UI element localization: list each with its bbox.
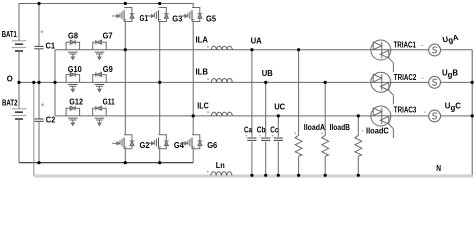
capacitor Cc — [270, 116, 283, 176]
junction G2 source on negative rail — [124, 161, 127, 164]
transistor G1 — [112, 8, 148, 51]
svg-text:G2: G2 — [140, 141, 151, 150]
junction G4 source on negative rail — [158, 161, 161, 164]
junction Ca on phase A — [250, 48, 253, 51]
transistor G4 — [147, 135, 185, 163]
svg-text:G11: G11 — [103, 97, 116, 106]
junction G1 drain on top rail — [124, 2, 127, 5]
resistor IloadC — [355, 116, 389, 176]
junction Cb on phase B — [264, 81, 267, 84]
svg-text:C2: C2 — [46, 115, 56, 124]
battery BAT1 — [2, 30, 27, 82]
junction BAT1/BAT2 on O rail — [17, 81, 20, 84]
junction Cb on N rail — [264, 174, 267, 177]
node UA — [251, 37, 262, 46]
svg-text:G10: G10 — [68, 65, 83, 74]
junction T-bus on O rail — [53, 81, 56, 84]
triac TRIAC1 — [371, 40, 417, 72]
triac TRIAC2 — [371, 72, 417, 104]
junction IloadB on N rail — [324, 174, 327, 177]
svg-text:ILA: ILA — [196, 35, 209, 44]
resistor IloadB — [321, 82, 350, 175]
svg-text:G12: G12 — [69, 97, 83, 106]
node B: half-bridge B midpoint — [158, 81, 161, 84]
resistor IloadA — [295, 50, 326, 176]
capacitor Ca — [244, 50, 257, 176]
svg-text:G8: G8 — [68, 32, 79, 41]
ac source UgB — [422, 69, 459, 89]
transistor G10 — [66, 65, 82, 92]
svg-text:UB: UB — [262, 69, 273, 78]
transistor G2 — [112, 50, 150, 163]
svg-text:Ca: Ca — [244, 126, 253, 135]
ac source UgA — [421, 33, 459, 56]
node A: half-bridge A midpoint — [124, 48, 127, 51]
node UB — [262, 69, 273, 78]
svg-text:IloadC: IloadC — [366, 126, 389, 135]
transistor G5 — [180, 8, 216, 135]
svg-text:ILB: ILB — [196, 68, 209, 77]
junction IloadC on phase C — [357, 114, 360, 117]
svg-text:C1: C1 — [46, 42, 56, 51]
capacitor Cb — [257, 82, 271, 175]
svg-text:TRIAC3: TRIAC3 — [394, 106, 417, 115]
svg-text:O: O — [7, 75, 13, 84]
transistor G3 — [147, 8, 183, 135]
junction C1 top rail — [37, 2, 40, 5]
transistor G12 — [66, 97, 84, 125]
svg-text:TRIAC2: TRIAC2 — [394, 73, 417, 82]
inductor ILC — [197, 101, 232, 116]
svg-text:G6: G6 — [207, 141, 218, 150]
transistor G9 — [93, 65, 114, 92]
wire phase A line — [55, 49, 472, 51]
svg-text:UC: UC — [274, 103, 285, 112]
transistor G6 — [180, 135, 218, 163]
battery BAT2 — [2, 82, 26, 163]
svg-text:UA: UA — [251, 37, 262, 46]
wire neutral N rail — [34, 174, 473, 177]
wire phase C line — [55, 115, 472, 117]
junction IloadB on phase B — [324, 81, 327, 84]
wire O rail / phase B line — [17, 81, 472, 83]
transistor G7 — [93, 32, 113, 60]
svg-text:IloadA: IloadA — [304, 123, 326, 132]
svg-text:Ln: Ln — [216, 161, 225, 170]
junction IloadC on N rail — [357, 174, 360, 177]
ac source UgC — [424, 102, 461, 122]
transistor G8 — [66, 32, 80, 60]
svg-text:N: N — [436, 164, 441, 173]
node C: half-bridge C midpoint — [192, 114, 195, 117]
svg-text:G9: G9 — [103, 65, 114, 74]
svg-text:BAT2: BAT2 — [2, 98, 18, 107]
junction neutral link on O rail — [32, 81, 35, 84]
svg-text:IloadB: IloadB — [330, 123, 351, 132]
node UC — [274, 103, 285, 112]
wire right return edge — [471, 50, 473, 175]
junction Cc on N rail — [277, 174, 280, 177]
junction phase B right edge — [471, 81, 474, 84]
node O — [7, 75, 13, 84]
transistor G11 — [93, 97, 116, 125]
svg-text:TRIAC1: TRIAC1 — [394, 41, 417, 50]
triac TRIAC3 — [371, 106, 417, 138]
junction G3 drain on top rail — [158, 2, 161, 5]
junction Ca on N rail — [250, 174, 253, 177]
junction Cc on phase C — [277, 114, 280, 117]
svg-text:Cb: Cb — [257, 126, 266, 135]
svg-text:G4: G4 — [174, 141, 185, 150]
svg-text:G5: G5 — [206, 14, 217, 23]
junction IloadA on phase A — [297, 48, 300, 51]
junction IloadA on N rail — [297, 174, 300, 177]
junction C1/C2 on O rail — [37, 81, 40, 84]
wire O-to-N neutral link — [33, 82, 35, 175]
wire top dc rail — [19, 4, 193, 41]
junction C2 on negative rail — [37, 161, 40, 164]
inductor ILA — [196, 35, 233, 50]
svg-text:BAT1: BAT1 — [2, 30, 18, 39]
junction phase C right edge — [471, 114, 474, 117]
wire negative dc rail — [19, 162, 193, 164]
capacitor C2 — [34, 82, 56, 163]
capacitor C1 — [34, 4, 55, 83]
inductor ILB — [196, 68, 233, 83]
wire T-bus vertical — [54, 50, 56, 116]
svg-text:G7: G7 — [103, 32, 113, 41]
svg-text:ILC: ILC — [197, 101, 209, 110]
inductor Ln — [207, 161, 232, 175]
node N — [436, 164, 441, 173]
svg-text:Cc: Cc — [270, 126, 279, 135]
